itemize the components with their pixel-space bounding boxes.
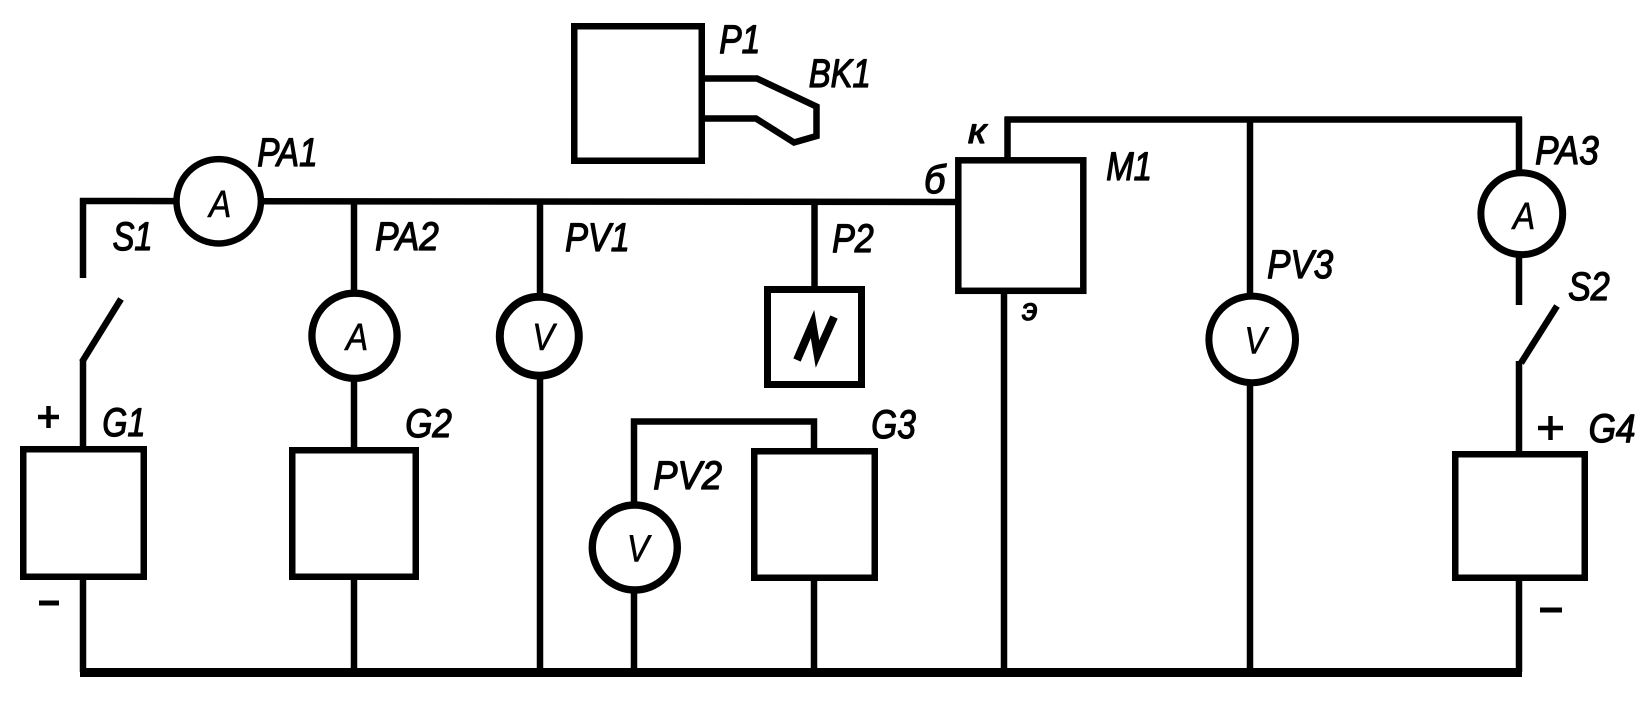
svg-text:A: A [207, 183, 231, 225]
svg-text:G1: G1 [102, 400, 145, 445]
svg-text:к: к [968, 111, 988, 151]
voltmeter PV2 [592, 505, 677, 590]
P2 symbol N [797, 317, 834, 360]
switch S2 blade [1521, 306, 1557, 363]
svg-text:э: э [1022, 291, 1038, 327]
sensor BK1 probe [705, 79, 817, 143]
wire: S2 to battery G4 [1516, 361, 1523, 454]
wire: bottom horizontal bus [80, 668, 1522, 677]
svg-text:PA2: PA2 [375, 214, 439, 258]
wire: top-right horizontal bus [1005, 116, 1523, 123]
wire: PA2 branch from bus [351, 199, 358, 294]
battery G1 [23, 449, 144, 577]
wire: PV1 to bottom bus [537, 376, 544, 672]
battery G4 [1455, 454, 1585, 578]
wire: top horizontal bus with base lead to M1 [80, 201, 956, 202]
+ polarity mark of G1 [38, 406, 59, 428]
ammeter PA2 [312, 293, 397, 378]
svg-text:S2: S2 [1568, 265, 1610, 309]
wire: G1 to bottom bus [80, 576, 87, 672]
svg-text:PV1: PV1 [565, 216, 630, 260]
svg-text:PA3: PA3 [1535, 128, 1599, 172]
switch S1 blade [82, 299, 121, 362]
wire: left vertical drop from bus to switch S1 [80, 198, 87, 278]
wire: G4 to bottom bus [1516, 576, 1523, 672]
svg-text:PV3: PV3 [1267, 242, 1333, 286]
wire: PV2 riser, horizontal link and drop to G3 [634, 422, 814, 504]
svg-text:V: V [1244, 320, 1269, 362]
wire: PA3 to switch S2 [1516, 254, 1523, 305]
wire: P2 branch from bus [811, 199, 818, 290]
− polarity mark of G1 [39, 601, 59, 606]
svg-text:б: б [924, 158, 947, 202]
voltmeter PV1 [500, 297, 579, 376]
svg-text:V: V [532, 316, 557, 358]
svg-text:A: A [344, 316, 368, 358]
wire: emitter lead э to bottom bus [1001, 290, 1008, 672]
transistor M1 [958, 160, 1083, 290]
svg-text:M1: M1 [1106, 144, 1152, 189]
svg-text:PA1: PA1 [257, 130, 317, 174]
svg-text:A: A [1511, 195, 1535, 237]
svg-text:S1: S1 [113, 214, 153, 259]
wire: PV2 to bottom bus [631, 588, 638, 672]
wire: G2 to bottom bus [351, 576, 358, 672]
instrument P2 [768, 290, 862, 385]
svg-text:BK1: BK1 [809, 51, 871, 96]
svg-text:PV2: PV2 [653, 455, 722, 499]
battery G2 [292, 450, 416, 577]
wire: G3 to bottom bus [811, 576, 818, 672]
+ polarity mark of G4 [1538, 416, 1563, 440]
svg-text:G2: G2 [405, 401, 452, 445]
svg-text:V: V [627, 528, 652, 570]
wire: PV3 to bottom bus [1247, 380, 1254, 672]
wire: S1 to battery G1 [80, 360, 87, 449]
svg-text:P1: P1 [719, 17, 760, 61]
voltmeter PV3 [1209, 296, 1296, 383]
svg-text:G4: G4 [1589, 406, 1635, 450]
ammeter PA3 [1481, 173, 1563, 255]
wire: PA2 to battery G2 [351, 377, 358, 450]
wire: PV3 branch from top-right bus [1247, 120, 1254, 298]
svg-text:G3: G3 [871, 402, 916, 446]
svg-text:P2: P2 [832, 217, 874, 261]
ammeter PA1 [177, 159, 261, 243]
− polarity mark of G4 [1540, 608, 1562, 613]
wire: bus right corner down to PA3 [1516, 117, 1523, 173]
wire: collector lead к from top-right bus [1004, 117, 1011, 162]
instrument P1 [574, 26, 702, 161]
wire: PV1 branch from bus [537, 199, 544, 296]
battery G3 [754, 451, 875, 578]
